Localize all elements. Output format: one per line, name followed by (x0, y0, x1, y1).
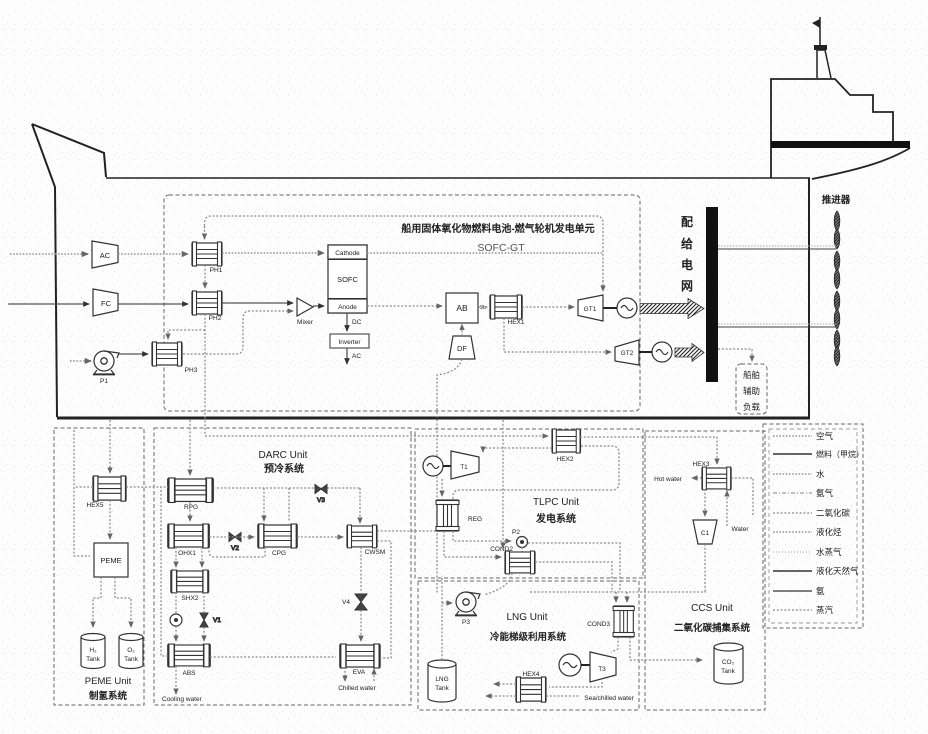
wire HEX3 right (731, 478, 753, 515)
legend 液化烃 (773, 527, 842, 537)
wire ABS to EVA (210, 656, 336, 658)
wire anode to AB (367, 305, 442, 307)
svg-text:Inverter: Inverter (338, 339, 361, 346)
svg-text:Mixer: Mixer (297, 319, 314, 326)
svg-text:T1: T1 (460, 464, 468, 471)
wire hot water out (692, 477, 702, 479)
wire exhaust to HEX2 (205, 435, 548, 437)
compressor AC (92, 241, 118, 268)
svg-text:DARC Unit: DARC Unit (259, 450, 308, 461)
svg-text:水蒸气: 水蒸气 (816, 547, 842, 557)
wire drop to CWSM (359, 488, 361, 523)
DARC unit box (154, 428, 411, 705)
legend 氨 (773, 586, 825, 596)
svg-text:水: 水 (816, 469, 825, 479)
wire AB to DF (461, 325, 463, 337)
wire HEX5 left loop (74, 430, 90, 556)
wire PEME to O2 tank (115, 577, 131, 627)
wire AB to HEX1 (478, 306, 490, 308)
wire HEX1 bottom to GT2 (504, 318, 611, 352)
propeller 4 (834, 330, 840, 366)
wire fuel inlet (8, 303, 89, 305)
wire SHX2 to V1 (203, 592, 205, 613)
wire V1 to ABS (203, 627, 205, 641)
ship hull outline (32, 124, 810, 418)
wire tank riser (441, 576, 443, 603)
svg-text:燃料（甲烷）: 燃料（甲烷） (816, 449, 864, 459)
svg-text:辅助: 辅助 (743, 386, 760, 396)
valve V2 (229, 533, 241, 553)
pump P2 (512, 529, 527, 548)
wire OHX1 to V2 to CPG (209, 536, 254, 538)
svg-text:发电系统: 发电系统 (535, 512, 576, 525)
svg-text:Sea/chilled water: Sea/chilled water (584, 695, 634, 702)
grid label text (681, 214, 693, 293)
wire DC out (346, 313, 348, 331)
wire HEX2 to T1 (483, 448, 552, 452)
svg-text:HEX4: HEX4 (523, 671, 540, 678)
wire pump to ABS (175, 626, 177, 641)
wire OHX1 to SHX2 a (175, 547, 177, 567)
heat exchanger ABS (168, 644, 210, 677)
wire into COND3 a (615, 592, 617, 602)
svg-text:HEX3: HEX3 (693, 461, 710, 468)
heat exchanger PH1 (192, 242, 223, 274)
legend 氨气 (773, 488, 834, 498)
heat exchanger REG (436, 500, 482, 531)
propeller 1 (834, 211, 840, 249)
wire air inlet (10, 253, 88, 255)
svg-text:制氢系统: 制氢系统 (89, 690, 128, 702)
svg-text:Anode: Anode (338, 304, 357, 311)
turbine T3 (590, 652, 616, 682)
svg-text:Tank: Tank (124, 656, 138, 663)
svg-text:PH3: PH3 (185, 367, 198, 374)
cathode (328, 245, 367, 259)
svg-text:PEME Unit: PEME Unit (85, 676, 132, 687)
wire chilled water out (344, 667, 346, 681)
svg-text:EVA: EVA (353, 669, 366, 676)
svg-text:冷能梯级利用系统: 冷能梯级利用系统 (490, 631, 567, 643)
legend 水蒸气 (773, 547, 842, 557)
svg-text:SHX2: SHX2 (182, 595, 199, 602)
svg-text:HEX1: HEX1 (508, 319, 525, 326)
svg-text:网: 网 (681, 279, 693, 293)
PEME unit box (54, 428, 144, 705)
svg-text:Tank: Tank (721, 668, 735, 675)
svg-text:配: 配 (681, 214, 693, 229)
svg-text:RPG: RPG (184, 504, 198, 511)
heat exchanger SHX2 (171, 570, 209, 602)
heat exchanger CPG (258, 524, 297, 557)
svg-text:REG: REG (468, 516, 482, 523)
shaft line to propellers upper (718, 246, 836, 249)
svg-text:COND2: COND2 (490, 546, 513, 553)
svg-text:FC: FC (101, 299, 112, 308)
legend box (763, 424, 863, 628)
heat exchanger EVA (340, 644, 380, 676)
pump SP (170, 614, 182, 626)
shaft GT2-G2 (639, 351, 652, 353)
wire T3 exhaust (549, 682, 602, 687)
CCS unit box (645, 431, 765, 710)
heat exchanger RPG (168, 478, 213, 511)
svg-text:CWSM: CWSM (365, 549, 386, 556)
wire HEX5 left stub (74, 486, 93, 488)
wire drop to CPG a (263, 488, 265, 521)
svg-text:Water: Water (731, 526, 749, 533)
wire CPG to CWSM (297, 536, 343, 538)
heat exchanger OHX1 (168, 524, 209, 557)
electrolyser PEME (94, 543, 128, 577)
svg-text:GT1: GT1 (584, 306, 597, 313)
svg-text:LNG: LNG (435, 676, 448, 683)
wire CWSM right b (377, 541, 391, 658)
wire arrow into PH1 top (204, 226, 206, 239)
wire water inlet (70, 360, 91, 362)
wire feed to HEX5 (109, 420, 111, 473)
mixer (297, 298, 314, 326)
fuel nozzle DF (449, 336, 475, 359)
wire chilled water in (373, 669, 375, 681)
busbar 配给电网 (706, 207, 718, 382)
wire PH1 to PH2 (204, 265, 206, 288)
legend 二氧化碳 (773, 508, 851, 518)
wire exhaust down to COND2 (502, 420, 504, 548)
valve V1 (200, 613, 221, 627)
wire PH2 down (204, 314, 206, 436)
generator G1 (617, 298, 637, 318)
wire P2 to COND2 (521, 547, 523, 552)
svg-text:二氧化碳: 二氧化碳 (816, 508, 851, 518)
tank LNG (428, 660, 456, 702)
condenser COND2 (490, 546, 535, 574)
wire busbar to service load (718, 349, 752, 361)
svg-text:二氧化碳捕集系统: 二氧化碳捕集系统 (674, 622, 751, 634)
wire AC to PH1 (118, 253, 188, 255)
svg-text:SOFC-GT: SOFC-GT (477, 242, 525, 254)
pump P3 (455, 592, 480, 626)
svg-text:DC: DC (352, 319, 362, 326)
condenser COND3 (587, 606, 634, 637)
svg-text:电: 电 (681, 257, 693, 272)
svg-text:V2: V2 (231, 545, 239, 552)
wire FC to PH2 (118, 303, 188, 305)
heat exchanger HEX1 (490, 295, 525, 326)
ship service load box 船舶辅助负载 (736, 364, 767, 414)
anode (328, 299, 367, 313)
legend 燃料（甲烷） (773, 449, 864, 459)
wire HEX1 to GT1 (522, 306, 574, 308)
wire ABS left loop (161, 487, 168, 656)
wire exhaust recirculation loop (205, 216, 604, 290)
svg-text:9b: 9b (480, 305, 486, 311)
svg-text:T3: T3 (598, 666, 606, 673)
svg-text:P1: P1 (100, 378, 108, 385)
wire AC out (346, 348, 348, 364)
wire RPG right run (213, 487, 360, 489)
wire REG to COND2 (444, 531, 501, 557)
svg-text:DF: DF (457, 344, 467, 353)
heat exchanger HEX4 (516, 671, 546, 702)
svg-text:船用固体氧化物燃料电池-燃气轮机发电单元: 船用固体氧化物燃料电池-燃气轮机发电单元 (401, 222, 594, 235)
ship superstructure (771, 79, 910, 179)
svg-text:Hot water: Hot water (654, 476, 683, 483)
svg-text:COND3: COND3 (587, 621, 610, 628)
funnel (817, 50, 831, 78)
svg-text:Chilled water: Chilled water (338, 685, 376, 692)
svg-text:H₂: H₂ (89, 647, 97, 654)
wire SHX2 to pump (175, 592, 177, 614)
wire CPG return (209, 547, 265, 557)
heat exchanger HEX2 (552, 429, 581, 463)
wire HEX4 out left (494, 683, 516, 685)
wire fuel riser to DF (437, 359, 462, 594)
turbine T1 (451, 451, 479, 479)
wire COND3 to CO2 tank (630, 637, 702, 660)
wire COND3 to T3 (611, 637, 618, 652)
wire PH1 to cathode (222, 252, 324, 254)
svg-text:预冷系统: 预冷系统 (264, 462, 304, 475)
svg-text:HEX5: HEX5 (87, 502, 104, 509)
mast (819, 17, 821, 45)
heat exchanger CWSM (347, 525, 385, 556)
wire COND2 to P3 (484, 573, 512, 595)
heat exchanger PH3 (152, 342, 198, 374)
wire CO2 run (530, 591, 706, 593)
wire RPG to OHX1 (189, 502, 191, 521)
wire OHX1 to SHX2 b (201, 547, 203, 567)
svg-text:PEME: PEME (100, 556, 121, 565)
svg-text:V1: V1 (213, 617, 221, 624)
compressor C1 (693, 520, 717, 544)
svg-text:蒸汽: 蒸汽 (816, 605, 834, 615)
SOFC stack outer (328, 245, 367, 313)
SOFC core (328, 260, 367, 299)
svg-text:V3: V3 (317, 497, 325, 504)
wire water in C1 (726, 491, 728, 526)
propeller 3 (834, 291, 840, 329)
wire V4 to EVA (360, 610, 362, 641)
legend 空气 (773, 431, 834, 441)
shaft G3-T1 (443, 465, 451, 467)
wire tank to P3 (442, 603, 452, 660)
svg-text:负载: 负载 (743, 402, 761, 412)
svg-text:Tank: Tank (86, 656, 100, 663)
legend 水 (773, 469, 825, 479)
svg-text:PH2: PH2 (209, 315, 222, 322)
svg-text:Tank: Tank (435, 685, 449, 692)
heat exchanger HEX3 (693, 461, 732, 490)
wire HEX2 to CCS (580, 437, 717, 464)
compressor FC (93, 289, 118, 316)
wire T1 out loop (453, 446, 619, 500)
legend 液化天然气 (773, 566, 859, 576)
svg-text:TLPC Unit: TLPC Unit (533, 497, 579, 508)
wire C1 down (704, 544, 706, 592)
heat exchanger HEX5 (87, 476, 126, 509)
tank CO2 (714, 643, 743, 684)
svg-text:C1: C1 (701, 530, 710, 537)
wire CWSM down (360, 547, 362, 592)
wire HEX5 to DARC (126, 486, 161, 488)
svg-text:LNG Unit: LNG Unit (506, 612, 547, 623)
svg-text:P3: P3 (462, 619, 470, 626)
wire T1 to REG (441, 479, 443, 496)
afterburner AB (446, 293, 478, 323)
wire cathode out (367, 252, 603, 254)
wire mixer to anode (313, 305, 324, 307)
wire arrow into GT1 top (602, 280, 604, 291)
wire HEX4 water right (546, 695, 580, 697)
wire CWSM right a (377, 530, 437, 532)
wire HEX4 water in (486, 695, 516, 697)
svg-text:V4: V4 (342, 599, 350, 606)
propeller 2 (834, 251, 840, 289)
svg-text:给: 给 (681, 236, 693, 251)
turbine GT2 (615, 340, 639, 365)
wire P1 to PH3 (119, 353, 148, 355)
svg-text:CO₂: CO₂ (722, 659, 735, 666)
svg-text:O₂: O₂ (127, 647, 135, 654)
svg-text:OHX1: OHX1 (178, 550, 196, 557)
svg-text:液化天然气: 液化天然气 (816, 566, 859, 576)
legend 蒸汽 (773, 605, 834, 615)
svg-text:AC: AC (352, 353, 361, 360)
shaft G4-T3 (581, 664, 590, 666)
svg-text:ABS: ABS (182, 670, 196, 677)
inverter U1 (330, 334, 369, 348)
turbine GT1 (578, 295, 603, 321)
svg-text:HEX2: HEX2 (557, 456, 574, 463)
svg-text:液化烃: 液化烃 (816, 527, 842, 537)
valve V3 (315, 485, 327, 505)
svg-text:CCS Unit: CCS Unit (691, 603, 733, 614)
wire ABS cooling out (175, 666, 177, 694)
generator G2 (652, 342, 672, 362)
svg-text:Cooling water: Cooling water (162, 696, 203, 703)
wire HEX5 to PEME (109, 500, 111, 539)
TLPC unit box (415, 429, 643, 578)
svg-text:CPG: CPG (272, 550, 286, 557)
valve V4 (342, 594, 367, 610)
pump P1 (93, 351, 119, 385)
wire drop to CPG b (288, 488, 290, 521)
tank H2 (81, 634, 105, 669)
SOFC-GT outer dashed box (164, 195, 640, 411)
wire feed to RPG (189, 420, 191, 475)
wire P2 right (528, 543, 620, 592)
svg-text:氨气: 氨气 (816, 488, 834, 498)
tank O2 (119, 634, 143, 669)
wire COND2 to COND3 (535, 562, 612, 592)
generator G4 (559, 654, 581, 676)
svg-text:Cathode: Cathode (335, 250, 360, 257)
wire into COND3 b (626, 592, 628, 602)
svg-text:SOFC: SOFC (337, 275, 358, 284)
svg-text:空气: 空气 (816, 431, 834, 441)
shaft GT1-G1 (603, 307, 617, 309)
shaft line to propellers lower (718, 324, 836, 327)
svg-text:推进器: 推进器 (822, 194, 851, 206)
wire elbow to PH3 (168, 330, 205, 339)
svg-text:AB: AB (456, 303, 468, 313)
wire PH3 steam to mixer (183, 311, 293, 354)
generator arrow GT1 to busbar (640, 299, 704, 319)
heat exchanger PH2 (192, 291, 222, 322)
generator G3 (423, 456, 443, 476)
wire REG to P2 (453, 531, 511, 541)
svg-text:AC: AC (100, 251, 111, 260)
wire PH2 to mixer (222, 302, 293, 304)
wire PEME to H2 tank (93, 577, 101, 627)
svg-text:船舶: 船舶 (743, 370, 760, 380)
svg-text:PH1: PH1 (210, 267, 223, 274)
wire HEX3 to C1 (704, 489, 706, 516)
svg-text:GT2: GT2 (621, 350, 634, 357)
svg-text:氨: 氨 (816, 586, 825, 596)
svg-text:P2: P2 (512, 529, 520, 536)
generator arrow GT2 to busbar (675, 344, 704, 362)
LNG unit box (418, 581, 639, 710)
